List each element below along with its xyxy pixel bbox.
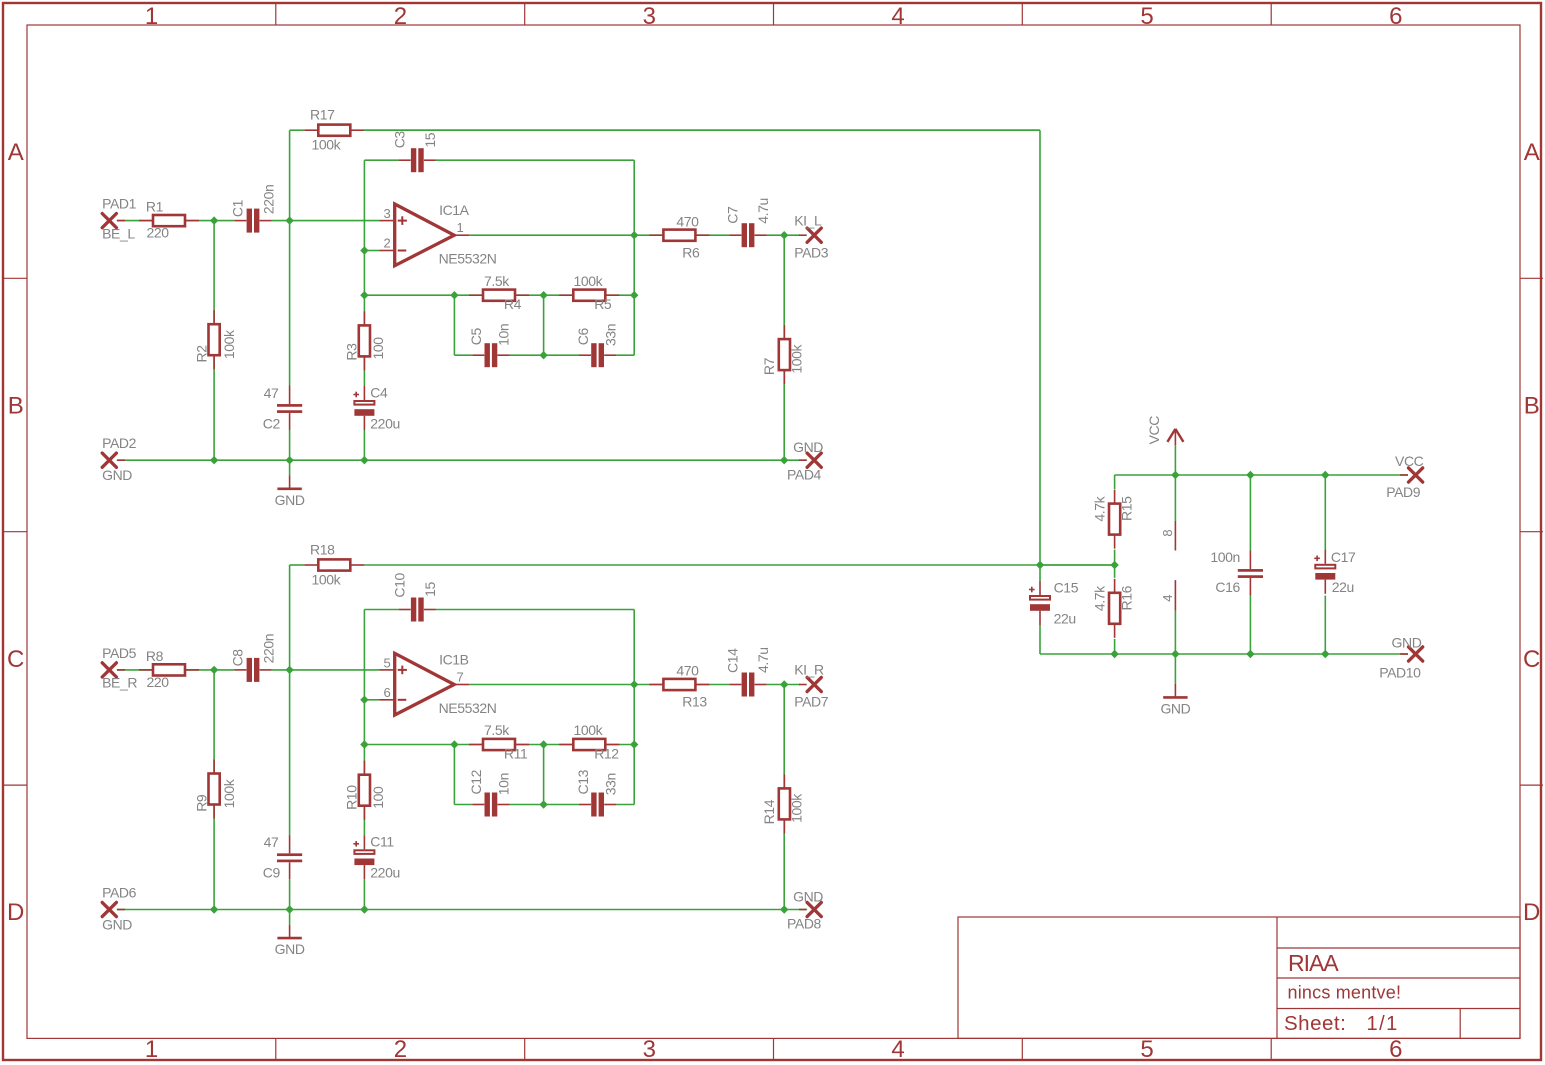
svg-text:R4: R4 (504, 296, 522, 312)
svg-text:4.7k: 4.7k (1092, 585, 1108, 611)
wire feedback rail (364, 251, 634, 296)
svg-text:470: 470 (676, 663, 699, 679)
svg-text:GND: GND (102, 467, 132, 483)
svg-text:6: 6 (1389, 1036, 1402, 1063)
svg-text:100n: 100n (1210, 549, 1240, 565)
svg-text:R3: R3 (344, 343, 360, 361)
resistor R5 100k (559, 273, 619, 312)
resistor R12 100k (559, 722, 619, 761)
svg-text:PAD9: PAD9 (1386, 484, 1421, 500)
svg-text:PAD7: PAD7 (794, 694, 829, 710)
wire output net (469, 684, 800, 686)
svg-text:3: 3 (383, 206, 390, 221)
capacitor C9 47 (263, 834, 302, 881)
svg-text:C13: C13 (575, 769, 591, 794)
svg-text:C: C (1523, 646, 1540, 673)
resistor R13 470 (649, 663, 709, 710)
svg-text:100k: 100k (312, 137, 342, 153)
svg-text:R9: R9 (194, 794, 210, 812)
svg-text:C6: C6 (575, 327, 591, 345)
capacitor C16 100n (1210, 549, 1263, 595)
svg-text:GND: GND (275, 941, 305, 957)
svg-text:C5: C5 (468, 327, 484, 345)
svg-text:C: C (7, 646, 24, 673)
svg-text:100k: 100k (574, 273, 604, 289)
resistor R7 100k (761, 325, 804, 384)
resistor R9 100k (194, 760, 237, 819)
capacitor C12 10n (468, 769, 512, 816)
svg-text:100: 100 (370, 337, 386, 360)
junction nodes (210, 666, 789, 914)
svg-text:Sheet:: Sheet: (1284, 1012, 1346, 1035)
svg-text:NE5532N: NE5532N (439, 251, 497, 267)
svg-text:C1: C1 (230, 199, 246, 217)
svg-text:GND: GND (102, 916, 132, 932)
wire C2 branch vertical (289, 130, 291, 460)
svg-text:100k: 100k (221, 778, 237, 808)
pad PAD6 (102, 884, 137, 932)
capacitor C13 33n (575, 769, 618, 816)
svg-text:GND: GND (275, 492, 305, 508)
capacitor C15 22u polarized (1029, 580, 1079, 627)
svg-text:6: 6 (1389, 3, 1402, 30)
op-amp power pin 4 (1160, 580, 1175, 611)
wire input net (117, 220, 380, 222)
svg-text:R16: R16 (1119, 585, 1135, 610)
svg-text:GND: GND (1160, 701, 1190, 717)
svg-text:1/1: 1/1 (1367, 1013, 1399, 1035)
resistor R8 220 (139, 648, 199, 690)
resistor R11 7.5k (469, 722, 529, 761)
svg-text:220u: 220u (370, 865, 400, 881)
svg-text:nincs mentve!: nincs mentve! (1288, 983, 1402, 1003)
wire inverting input (364, 699, 379, 701)
svg-text:33n: 33n (602, 773, 618, 795)
svg-text:100k: 100k (312, 571, 342, 587)
svg-text:220: 220 (147, 674, 170, 690)
capacitor C4 220u polarized (353, 384, 399, 431)
svg-text:10n: 10n (496, 324, 512, 346)
svg-text:R1: R1 (146, 199, 164, 215)
svg-text:PAD10: PAD10 (1379, 665, 1421, 681)
svg-text:R17: R17 (310, 107, 335, 123)
svg-text:47: 47 (264, 834, 279, 850)
svg-text:C2: C2 (263, 415, 281, 431)
svg-text:100: 100 (370, 786, 386, 809)
supply junction nodes (1036, 471, 1330, 658)
op-amp IC1A NE5532N (380, 202, 497, 267)
svg-text:C12: C12 (468, 769, 484, 794)
wire GND rail supply (1040, 639, 1408, 654)
resistor R10 100 (344, 761, 386, 820)
pad PAD4 (787, 439, 823, 482)
svg-text:220n: 220n (260, 185, 276, 215)
svg-text:PAD6: PAD6 (102, 884, 137, 900)
svg-text:8: 8 (1160, 530, 1175, 537)
svg-text:22u: 22u (1332, 579, 1354, 595)
svg-text:1: 1 (145, 3, 158, 30)
svg-text:4: 4 (1160, 595, 1175, 602)
svg-text:C14: C14 (724, 648, 740, 673)
capacitor C17 22u polarized (1314, 549, 1356, 595)
op-amp IC1B NE5532N (380, 651, 497, 716)
svg-text:RIAA: RIAA (1288, 950, 1339, 976)
capacitor C14 4.7u (724, 647, 771, 696)
svg-text:5: 5 (1140, 3, 1153, 30)
frame row ticks right (1520, 278, 1543, 785)
svg-text:BE_R: BE_R (102, 675, 137, 691)
svg-text:15: 15 (422, 132, 438, 147)
svg-text:1: 1 (145, 1036, 158, 1063)
resistor R15 4.7k (1092, 490, 1135, 549)
svg-text:C15: C15 (1054, 580, 1079, 596)
svg-text:R18: R18 (310, 542, 335, 558)
frame row ticks left (3, 278, 27, 785)
svg-text:IC1B: IC1B (439, 651, 469, 667)
wire ground rail (117, 459, 807, 461)
svg-text:220n: 220n (260, 634, 276, 664)
supply VCC arrow symbol (1146, 416, 1184, 445)
pad PAD10 GND (1379, 635, 1423, 681)
ground symbol (275, 460, 305, 508)
svg-text:KI_L: KI_L (794, 212, 822, 228)
wire VCC rail (1115, 475, 1408, 489)
svg-text:R7: R7 (761, 357, 777, 375)
wire bias resistor run (290, 564, 1115, 566)
svg-text:5: 5 (383, 655, 390, 670)
svg-text:220u: 220u (370, 415, 400, 431)
svg-text:GND: GND (793, 439, 823, 455)
svg-text:B: B (8, 393, 24, 420)
svg-text:A: A (1524, 139, 1540, 166)
frame row letters left (7, 139, 24, 926)
svg-text:D: D (7, 899, 24, 926)
title text sheet (1284, 1012, 1399, 1035)
svg-text:47: 47 (264, 385, 279, 401)
capacitor C1 220n (230, 185, 277, 233)
resistor R6 470 (649, 213, 709, 260)
svg-text:470: 470 (676, 213, 699, 229)
title block box (958, 917, 1520, 1038)
wire bias resistor run (290, 129, 1040, 131)
svg-text:1: 1 (457, 220, 464, 235)
wire output net (469, 234, 800, 236)
resistor R18 100k bias (304, 542, 364, 588)
resistor R2 100k (194, 310, 237, 369)
wire inverting input (364, 250, 379, 252)
svg-text:22u: 22u (1054, 611, 1076, 627)
svg-text:C11: C11 (370, 834, 394, 850)
capacitor C5 10n (468, 324, 512, 367)
svg-text:7.5k: 7.5k (484, 722, 510, 738)
svg-text:GND: GND (1392, 635, 1422, 651)
wire R17 bias long run to supply divider (364, 130, 1040, 565)
wire R3 branch vertical (363, 295, 365, 460)
frame column ticks top (276, 3, 1271, 25)
pad PAD7 (794, 662, 829, 710)
pad PAD2 (102, 435, 137, 483)
svg-text:D: D (1523, 899, 1540, 926)
wire C2 branch vertical (289, 565, 291, 910)
capacitor C10 15 (391, 573, 438, 622)
svg-text:PAD4: PAD4 (787, 466, 822, 482)
pad PAD8 (787, 888, 823, 931)
svg-text:R15: R15 (1119, 496, 1135, 521)
wire IC power pins branch (1174, 445, 1176, 669)
capacitor C8 220n (230, 634, 277, 682)
frame column ticks bottom (276, 1038, 1271, 1060)
svg-text:IC1A: IC1A (439, 202, 470, 218)
svg-text:VCC: VCC (1146, 416, 1162, 445)
svg-text:PAD3: PAD3 (794, 244, 829, 260)
svg-text:GND: GND (793, 888, 823, 904)
svg-text:7: 7 (457, 670, 464, 685)
svg-text:10n: 10n (496, 773, 512, 795)
svg-text:A: A (8, 139, 24, 166)
wire C16 branch (1249, 475, 1251, 654)
svg-text:4: 4 (891, 3, 904, 30)
wire input net (117, 669, 380, 671)
svg-text:R10: R10 (344, 785, 360, 810)
svg-text:C10: C10 (391, 573, 407, 598)
svg-text:R5: R5 (594, 296, 612, 312)
svg-text:B: B (1524, 393, 1540, 420)
svg-text:100k: 100k (574, 722, 604, 738)
svg-text:C8: C8 (230, 649, 246, 667)
junction nodes (210, 216, 789, 464)
svg-text:5: 5 (1140, 1036, 1153, 1063)
pad PAD3 (794, 212, 829, 260)
svg-text:6: 6 (383, 685, 390, 700)
ground symbol (275, 910, 305, 958)
svg-text:4.7k: 4.7k (1092, 495, 1108, 521)
svg-text:R14: R14 (761, 799, 777, 824)
svg-text:R8: R8 (146, 648, 164, 664)
wire cap rail (454, 685, 634, 805)
pad PAD5 (102, 645, 137, 691)
svg-text:C4: C4 (370, 384, 388, 400)
wire C17 branch (1324, 475, 1326, 654)
svg-text:C16: C16 (1215, 579, 1240, 595)
svg-text:C17: C17 (1331, 549, 1356, 565)
svg-text:BE_L: BE_L (102, 225, 135, 241)
svg-text:100k: 100k (788, 793, 804, 823)
svg-text:3: 3 (643, 3, 656, 30)
wire ground rail (117, 909, 807, 911)
resistor R3 100 (344, 311, 386, 370)
svg-text:PAD8: PAD8 (787, 916, 822, 932)
svg-text:4.7u: 4.7u (755, 647, 771, 673)
frame row letters right (1523, 139, 1540, 926)
svg-text:2: 2 (394, 3, 407, 30)
svg-text:C3: C3 (391, 131, 407, 149)
frame column numbers top (145, 3, 1402, 30)
resistor R1 220 (139, 199, 199, 241)
wire R7 branch vertical (783, 685, 785, 910)
wire cap rail (454, 235, 634, 355)
ground symbol supply (1160, 669, 1190, 717)
capacitor C6 33n (575, 324, 618, 367)
capacitor C3 15 (391, 131, 438, 173)
wire C15 branch (1039, 565, 1041, 654)
svg-text:PAD2: PAD2 (102, 435, 137, 451)
svg-text:R2: R2 (194, 345, 210, 363)
pad PAD1 (102, 196, 137, 242)
svg-text:2: 2 (394, 1036, 407, 1063)
svg-text:R6: R6 (682, 244, 700, 260)
wire C3 feedback top run (364, 610, 634, 700)
svg-text:R13: R13 (682, 694, 707, 710)
svg-text:4: 4 (891, 1036, 904, 1063)
frame column numbers bottom (145, 1036, 1402, 1063)
svg-text:VCC: VCC (1395, 453, 1424, 469)
svg-text:NE5532N: NE5532N (439, 700, 497, 716)
svg-text:100k: 100k (788, 343, 804, 373)
svg-text:15: 15 (422, 582, 438, 597)
svg-text:3: 3 (643, 1036, 656, 1063)
svg-text:2: 2 (383, 236, 390, 251)
svg-text:R12: R12 (594, 745, 619, 761)
capacitor C2 47 (263, 385, 302, 432)
wire R7 branch vertical (783, 235, 785, 460)
resistor R4 7.5k (469, 273, 529, 312)
resistor R14 100k (761, 774, 804, 833)
svg-text:220: 220 (147, 225, 170, 241)
wire supply mid rail (1040, 550, 1115, 578)
resistor R16 4.7k (1092, 579, 1135, 638)
svg-text:100k: 100k (221, 329, 237, 359)
op-amp power pin 8 (1160, 521, 1175, 551)
svg-text:33n: 33n (602, 324, 618, 346)
svg-text:PAD5: PAD5 (102, 645, 137, 661)
wire R2 branch vertical (213, 221, 215, 461)
wire C3 feedback top run (364, 160, 634, 250)
svg-text:C7: C7 (724, 206, 740, 224)
svg-text:C9: C9 (263, 865, 281, 881)
svg-text:R11: R11 (504, 745, 528, 761)
pad PAD9 VCC (1386, 453, 1423, 500)
svg-text:PAD1: PAD1 (102, 196, 137, 212)
capacitor C11 220u polarized (353, 834, 399, 881)
resistor R17 100k bias (304, 107, 364, 153)
capacitor C7 4.7u (724, 198, 771, 247)
svg-text:7.5k: 7.5k (484, 273, 510, 289)
wire feedback rail (364, 700, 634, 745)
wire R3 branch vertical (363, 745, 365, 910)
wire R2 branch vertical (213, 670, 215, 910)
svg-text:4.7u: 4.7u (755, 198, 771, 224)
svg-text:KI_R: KI_R (794, 662, 824, 678)
